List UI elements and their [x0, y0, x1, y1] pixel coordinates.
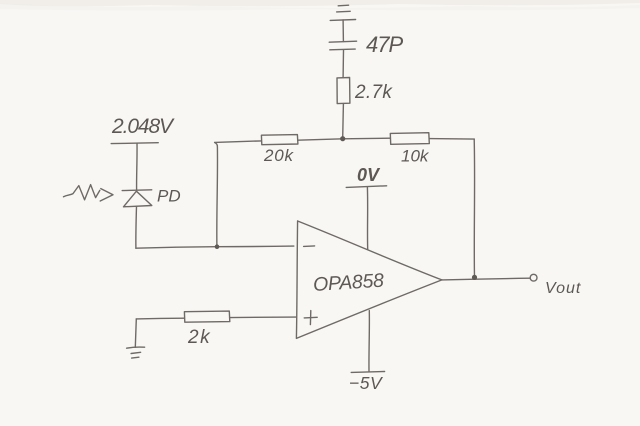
svg-text:10k: 10k [401, 147, 430, 166]
svg-text:PD: PD [157, 187, 181, 206]
svg-text:47P: 47P [366, 32, 403, 57]
svg-text:Vout: Vout [545, 280, 581, 297]
svg-text:20k: 20k [263, 146, 295, 165]
svg-text:0V: 0V [357, 165, 381, 185]
svg-text:2.048V: 2.048V [111, 115, 175, 138]
svg-text:−5V: −5V [349, 373, 384, 393]
svg-text:OPA858: OPA858 [313, 270, 385, 296]
svg-text:2.7k: 2.7k [354, 82, 393, 103]
svg-text:2k: 2k [187, 327, 211, 348]
